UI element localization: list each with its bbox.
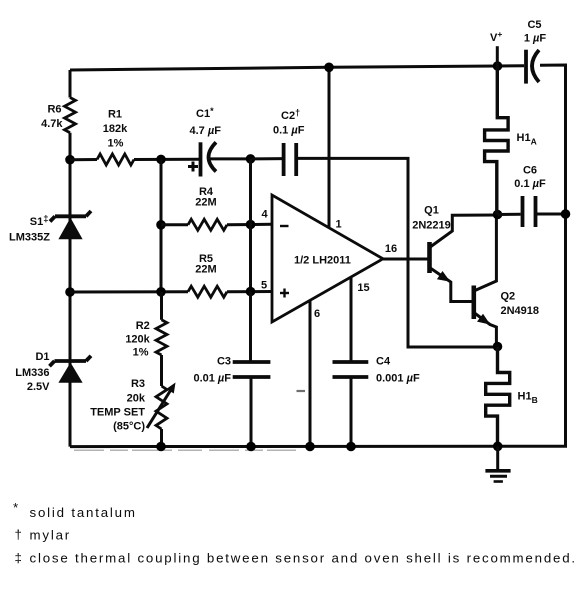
- wire pin15 upper: [350, 277, 353, 362]
- svg-text:2.5V: 2.5V: [27, 381, 50, 393]
- wire left rail lower: [69, 133, 72, 447]
- wire column x250: [249, 159, 252, 292]
- svg-text:0.001 µF: 0.001 µF: [376, 373, 420, 385]
- wire left rail: [69, 70, 72, 98]
- wire top rail: [70, 66, 524, 70]
- node bottom x251: [246, 442, 256, 452]
- svg-text:*: *: [13, 500, 20, 515]
- svg-text:1: 1: [335, 219, 341, 231]
- svg-text:15: 15: [357, 282, 369, 294]
- svg-text:close thermal coupling between: close thermal coupling between sensor an…: [30, 551, 577, 566]
- svg-text:120k: 120k: [125, 334, 150, 346]
- svg-text:C6: C6: [523, 165, 537, 177]
- svg-text:TEMP SET: TEMP SET: [90, 407, 145, 419]
- node pin1 top: [324, 63, 334, 73]
- svg-text:1 µF: 1 µF: [524, 33, 547, 45]
- svg-text:182k: 182k: [103, 123, 128, 135]
- wire top rail right of C5: [540, 65, 566, 214]
- svg-text:20k: 20k: [127, 393, 146, 405]
- node row3 x161: [156, 287, 166, 297]
- resistor R6: [41, 98, 75, 133]
- svg-text:22M: 22M: [195, 197, 216, 209]
- node row3 x250: [246, 287, 256, 297]
- svg-text:C3: C3: [217, 356, 231, 368]
- svg-text:D1: D1: [35, 351, 49, 363]
- node left rail row1: [65, 155, 75, 165]
- svg-text:0.01 µF: 0.01 µF: [193, 373, 231, 385]
- wire row1 R1 to C1: [134, 158, 200, 161]
- wire right rail: [564, 214, 567, 446]
- diode D1 LM336: [15, 351, 91, 393]
- transistor Q2 2N4918: [474, 217, 539, 344]
- svg-text:‡: ‡: [15, 551, 24, 566]
- heater H1A: [485, 66, 537, 215]
- wire feedback C2 to Q2 emitter node: [296, 158, 493, 347]
- wire column x161 down: [160, 159, 163, 291]
- wire echo artifact under bottom rail: [74, 449, 296, 451]
- ground: [485, 446, 510, 481]
- svg-text:†: †: [15, 527, 24, 542]
- wire x161 R2-R3: [160, 292, 163, 320]
- node C6 right rail: [561, 209, 571, 219]
- node x161 row2: [156, 220, 166, 230]
- wire row2: [161, 223, 188, 226]
- node Q2 emitter: [493, 342, 503, 352]
- capacitor C4: [333, 356, 420, 447]
- node row1 x250: [246, 154, 256, 164]
- capacitor C5: [524, 19, 547, 84]
- op-amp U1 1/2 LH2011: [261, 195, 383, 322]
- svg-text:16: 16: [385, 243, 397, 255]
- wire row3 left: [70, 290, 188, 293]
- svg-text:(85°C): (85°C): [113, 421, 145, 433]
- svg-text:C5: C5: [527, 19, 541, 31]
- svg-text:C4: C4: [376, 356, 391, 368]
- svg-text:Q2: Q2: [501, 291, 516, 303]
- svg-text:1/2 LH2011: 1/2 LH2011: [294, 255, 351, 267]
- node row1 x161: [156, 155, 166, 165]
- svg-text:0.1 µF: 0.1 µF: [273, 125, 305, 137]
- svg-text:LM335Z: LM335Z: [9, 232, 50, 244]
- node bottom heater: [493, 442, 503, 452]
- wire dash artifact near pin 6: [297, 390, 306, 392]
- heater H1B: [486, 347, 538, 447]
- svg-text:4: 4: [261, 209, 268, 221]
- svg-text:6: 6: [314, 308, 320, 320]
- svg-text:4.7 µF: 4.7 µF: [190, 125, 222, 137]
- sensor S1 LM335Z: [9, 211, 91, 244]
- resistor R4: [188, 186, 227, 230]
- potentiometer R3 TEMP SET: [90, 378, 175, 433]
- wire row3 to pin5: [227, 290, 272, 293]
- svg-text:1%: 1%: [108, 138, 124, 150]
- svg-text:R1: R1: [108, 109, 122, 121]
- svg-text:2N2219: 2N2219: [412, 220, 451, 232]
- capacitor C2: [273, 108, 305, 177]
- capacitor C6: [498, 165, 566, 228]
- svg-text:LM336: LM336: [15, 367, 49, 379]
- node collector C6 H1A: [493, 210, 503, 220]
- transistor Q1 2N2219: [412, 205, 497, 302]
- wire pin6: [309, 300, 312, 446]
- node left rail row3: [65, 287, 75, 297]
- wire x161 R3 to bottom: [160, 429, 163, 447]
- resistor R2: [125, 320, 167, 359]
- node bottom x351: [346, 442, 356, 452]
- svg-text:mylar: mylar: [30, 528, 72, 543]
- svg-text:R6: R6: [47, 104, 61, 116]
- svg-text:5: 5: [261, 280, 267, 292]
- svg-text:solid tantalum: solid tantalum: [30, 505, 137, 520]
- wire row1 C1-C2: [251, 157, 284, 160]
- wire bottom rail: [70, 445, 567, 448]
- wire output pin16: [383, 258, 428, 261]
- svg-text:Q1: Q1: [424, 205, 439, 217]
- svg-text:2N4918: 2N4918: [501, 305, 540, 317]
- wire row1 left: [70, 158, 97, 161]
- node row2 x250: [246, 220, 256, 230]
- resistor R5: [188, 253, 227, 297]
- svg-text:R3: R3: [131, 378, 145, 390]
- resistor R1: [97, 109, 134, 166]
- svg-text:0.1 µF: 0.1 µF: [514, 178, 546, 190]
- node V+: [493, 61, 503, 71]
- svg-text:4.7k: 4.7k: [41, 118, 63, 130]
- terminal V+: [490, 29, 502, 66]
- svg-text:1%: 1%: [133, 347, 149, 359]
- wire pin1: [328, 67, 331, 228]
- svg-text:R2: R2: [136, 320, 150, 332]
- svg-text:22M: 22M: [195, 264, 216, 276]
- capacitor C3: [193, 292, 270, 447]
- node bottom x161: [156, 442, 166, 452]
- capacitor C1: [188, 106, 251, 177]
- node bottom x310: [305, 442, 315, 452]
